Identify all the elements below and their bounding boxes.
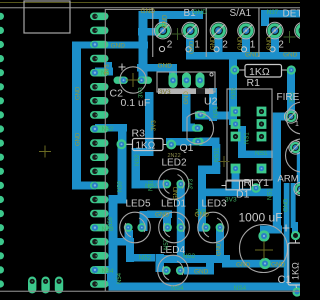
connector J1 pin 5 pad: [90, 69, 109, 77]
resistor R4 lead: [296, 240, 297, 288]
origin cross marker left: [39, 146, 51, 158]
wire to C1 plus pad H: [262, 226, 282, 234]
wire N59 vertical upper: [118, 145, 127, 202]
svg-text:N35: N35: [232, 87, 238, 99]
led LED4 cathode pad: [176, 266, 185, 275]
wire N59 vertical lower: [109, 195, 118, 286]
wire N52 horizontal: [95, 124, 127, 132]
resistor R3 left pad: [117, 139, 127, 149]
relay RLY1 pin pad col1 row4: [231, 164, 241, 174]
connector J1 pin 6 pad: [90, 83, 109, 91]
connector left edge pin 20 pad: [0, 280, 4, 287]
led LED5 outline circle: [120, 212, 151, 243]
connector FIRE1 pin 1 pad: [284, 110, 297, 123]
connector ARM1 outline circle: [286, 139, 319, 172]
wire NS1 from U2 pin3: [209, 88, 217, 121]
svg-text:1KΩ: 1KΩ: [136, 140, 156, 151]
wire U2 pin2 down: [182, 88, 191, 132]
svg-text:NS1: NS1: [255, 150, 268, 157]
svg-text:LED5: LED5: [126, 199, 151, 210]
wire down to LED3 left pad: [198, 166, 206, 232]
svg-text:ARM: ARM: [278, 174, 299, 185]
svg-text:GND: GND: [163, 14, 169, 28]
wire V4 right edge: [297, 152, 301, 186]
svg-text:2: 2: [167, 39, 173, 50]
wire GND left vertical: [72, 42, 81, 190]
relay RLY1 pin pad col2 row2: [257, 119, 267, 129]
connector left edge pin 2 pad: [0, 27, 4, 34]
origin cross marker DET: [284, 31, 296, 43]
transistor Q1 pin 3 pad: [192, 138, 203, 145]
wire N52 link down: [126, 238, 134, 262]
transistor Q1 pin 2 pad: [192, 124, 203, 131]
svg-text:3V3: 3V3: [105, 64, 111, 75]
svg-text:GND: GND: [76, 86, 82, 100]
wire jog left to NS2 column: [132, 148, 154, 156]
connector J1 pin 17 pad: [90, 238, 109, 246]
led LED4 outline circle: [158, 255, 189, 286]
wire FIRE pad left: [277, 113, 291, 121]
connector left edge pin 15 pad: [0, 210, 4, 217]
connector left edge pin 14 pad: [0, 196, 4, 203]
silkscreen connector box line SA1/DET: [258, 8, 259, 57]
connector DET1 pin 2 pad: [267, 22, 284, 39]
wire NS2 horizontal lower: [126, 254, 155, 262]
wire NS4 bottom trace: [109, 283, 301, 291]
relay RLY1 pin pad col2 row4: [257, 164, 267, 174]
op-amp U2 tab notch: [196, 88, 205, 94]
resistor R4 body box: [288, 243, 302, 285]
wire GND vertical V2 right side: [284, 183, 290, 290]
svg-text:1000 uF: 1000 uF: [239, 211, 283, 225]
svg-text:0.1 uF: 0.1 uF: [121, 97, 151, 109]
connector J1 pin 4 pad: [90, 55, 109, 63]
wire LED3 right pad down: [216, 229, 224, 259]
svg-text:GND: GND: [111, 42, 126, 49]
connector J1 pin 18 pad: [90, 252, 109, 260]
wire NS2 vertical: [132, 148, 141, 188]
svg-text:GND: GND: [283, 52, 298, 59]
svg-text:NS4: NS4: [234, 285, 247, 292]
connector J2 pin 3 pad: [55, 277, 63, 294]
wire GND top bar under B1: [140, 11, 203, 19]
wire GND into header via row12: [72, 182, 96, 190]
wire LED4 right H: [184, 267, 214, 275]
wire GND above U2: [137, 64, 177, 72]
svg-text:LED2: LED2: [162, 158, 187, 169]
led LED3 cathode pad: [216, 223, 225, 232]
svg-text:NS11: NS11: [214, 147, 220, 162]
wire R1 right down to FIRE: [287, 70, 295, 118]
board outline top olive line: [0, 2, 300, 3]
wire N35 vertical R1 to relay: [229, 59, 237, 125]
svg-text:GND: GND: [190, 40, 196, 54]
svg-text:Q1: Q1: [180, 142, 194, 154]
capacitor C2 pad -: [138, 77, 153, 84]
led LED1 cathode pad: [177, 223, 186, 232]
resistor R1 left pad: [230, 65, 239, 74]
pin number marker circle: [241, 47, 246, 52]
svg-text:N39: N39: [102, 226, 114, 233]
capacitor C1 origin cross: [255, 241, 273, 259]
op-amp U2 tab bar: [158, 88, 214, 94]
connector J1 pin 14 pad: [90, 196, 109, 204]
svg-text:R3: R3: [132, 128, 146, 140]
svg-text:1KΩ: 1KΩ: [291, 262, 301, 280]
wire jog left above LED3: [198, 166, 220, 175]
diode D1 left lead: [222, 185, 227, 187]
capacitor C1 plus mark: [283, 225, 290, 232]
relay RLY1 pin pad col2 row1: [257, 107, 267, 117]
connector left edge pin 18 pad: [0, 252, 4, 259]
led LED2 cathode pad: [176, 180, 185, 189]
connector left edge pin 3 pad: [0, 41, 4, 48]
svg-text:N59: N59: [118, 180, 124, 192]
svg-text:N37: N37: [267, 9, 279, 16]
svg-text:N57: N57: [164, 238, 170, 250]
wire stub pad275: [271, 33, 279, 54]
led LED2 outline circle: [158, 169, 189, 200]
svg-text:2: 2: [278, 39, 284, 50]
connector DET1 pin 1 pad: [295, 22, 312, 39]
svg-text:NS2: NS2: [135, 154, 141, 166]
silkscreen connector box line B1/SA1: [206, 8, 207, 57]
connector ARM1 pin pad lower: [294, 182, 307, 195]
silkscreen long vertical line of header: [105, 10, 152, 292]
relay RLY1 pin pad col1 row2: [231, 119, 241, 129]
wire into LED4 left pad: [156, 254, 165, 272]
wire GND to C1 bottom pad: [222, 260, 262, 268]
svg-text:N54: N54: [117, 272, 123, 284]
wire N3 up: [104, 62, 112, 74]
svg-text:GND: GND: [195, 212, 210, 219]
svg-text:NS4: NS4: [171, 285, 184, 292]
svg-text:GND: GND: [211, 36, 217, 50]
capacitor C2 pad +: [114, 77, 129, 84]
connector left edge pin 19 pad: [0, 266, 4, 273]
op-amp U2 pin1 marker: [210, 73, 213, 76]
wire stub to B1 pin 2: [159, 14, 167, 33]
capacitor C1 pad -: [259, 258, 270, 269]
led LED4 anode pad: [162, 266, 171, 275]
connector J1 pin 2 pad: [90, 27, 109, 35]
connector S/A1 pin 1 pad: [238, 22, 255, 39]
connector left edge pin 7 pad: [0, 97, 4, 104]
wire N59 jog: [109, 195, 127, 204]
resistor R4 top pad: [291, 231, 300, 240]
svg-text:N52: N52: [102, 126, 114, 133]
connector J1 pin 11 pad: [90, 153, 109, 161]
wire stub pad246: [242, 33, 250, 54]
connector left edge pin 12 pad: [0, 168, 4, 175]
svg-text:RLY1: RLY1: [244, 177, 270, 189]
connector J1 pin 15 pad: [90, 210, 109, 218]
resistor R1 body box: [245, 65, 282, 78]
wire LED5 left pad down: [125, 230, 134, 245]
wire N37 vertical: [261, 10, 269, 26]
wire NS1 H to relay: [195, 112, 235, 120]
wire stub pad218: [215, 33, 223, 54]
wire Q1 emitter right: [200, 138, 220, 147]
resistor R1 leads: [239, 69, 286, 71]
relay RLY1 pin pad col1 row1: [231, 107, 241, 117]
svg-text:S/A1: S/A1: [230, 8, 252, 19]
wire V3 to R4 top: [291, 183, 296, 228]
diode D1 body box: [226, 181, 251, 190]
op-amp U2 pin 3 pad: [196, 73, 205, 89]
wire N54 stub: [95, 266, 113, 274]
connector J1 pin 20 pad: [90, 280, 109, 288]
svg-text:GND: GND: [158, 62, 173, 69]
led LED1 outline circle: [159, 212, 190, 243]
diode D1 cathode pad: [251, 183, 261, 193]
resistor R4 bottom pad: [292, 287, 301, 296]
wire GND jog to B1 pin2: [138, 28, 164, 36]
wire 3V3 vertical below U2: [145, 92, 154, 156]
wire B1 pin1 down: [186, 26, 194, 57]
svg-text:GND: GND: [271, 262, 286, 269]
svg-text:1: 1: [295, 121, 299, 128]
connector left edge pin 6 pad: [0, 83, 4, 90]
wire LED5 left H: [110, 238, 133, 246]
wire to Q1 base: [182, 124, 195, 132]
wire N54 down: [107, 266, 115, 286]
svg-text:NS2: NS2: [139, 255, 152, 262]
svg-text:1: 1: [250, 39, 256, 50]
svg-text:GND: GND: [238, 36, 244, 50]
transistor Q1 outline circle: [187, 113, 214, 144]
connector left edge pin 10 pad: [0, 140, 4, 147]
svg-text:GND: GND: [184, 91, 190, 105]
connector left edge pin 4 pad: [0, 55, 4, 62]
svg-text:3V3: 3V3: [139, 87, 145, 98]
wire D1 right: [202, 189, 273, 197]
svg-text:GND: GND: [141, 8, 156, 15]
pin number marker circle: [270, 47, 275, 52]
connector B1 pin 1 pad: [182, 22, 199, 39]
connector J2 pin 1 pad: [28, 277, 36, 294]
svg-text:FIRE: FIRE: [277, 92, 300, 103]
svg-text:GND: GND: [193, 9, 208, 16]
op-amp U2 pin 1 pad: [169, 73, 178, 89]
svg-text:GND: GND: [155, 212, 170, 219]
diode D1 cathode bars: [240, 181, 243, 190]
wire NS1 big vertical right: [273, 113, 281, 234]
connector FIRE1 outline circle: [287, 102, 319, 134]
connector J1 pin 1 pad: [90, 13, 109, 21]
connector S/A1 pin 2 pad: [210, 22, 227, 39]
wire V3 jog into R4 pad: [292, 222, 298, 234]
pin number marker circle: [159, 46, 164, 51]
origin cross marker B1: [172, 28, 184, 40]
wire LED2 right pad down: [177, 186, 185, 263]
connector left edge pin 13 pad: [0, 182, 4, 189]
board outline bottom gray line: [0, 291, 300, 292]
pin number marker circle: [186, 47, 191, 52]
connector J1 pin 7 pad: [90, 97, 109, 105]
wire Q1 pin3 to R3: [166, 138, 200, 146]
connector J1 pin 10 pad: [90, 139, 109, 147]
pin number marker circle: [214, 47, 219, 52]
led LED1 anode pad: [163, 223, 172, 232]
connector J1 pin 13 pad: [90, 182, 109, 190]
svg-text:3V3: 3V3: [152, 120, 158, 131]
resistor R3 body box: [133, 139, 164, 151]
silkscreen connector box line B1 left: [152, 8, 153, 57]
svg-text:2: 2: [222, 39, 228, 50]
wire NS1 V from relay pin: [238, 126, 246, 158]
wire NS1 H in relay: [239, 151, 273, 159]
led LED5 anode pad: [124, 223, 133, 232]
svg-text:LED1: LED1: [161, 199, 186, 210]
svg-text:NS2: NS2: [183, 253, 196, 260]
wire GND link LED5-LED1: [147, 211, 172, 219]
svg-text:U2: U2: [204, 96, 218, 108]
wire LED4 right up: [206, 255, 214, 271]
svg-text:GND: GND: [245, 52, 260, 59]
board outline top gray line: [0, 7, 300, 8]
capacitor C2 origin cross: [126, 73, 140, 87]
svg-text:NS1: NS1: [245, 132, 251, 144]
op-amp U2 outline box: [157, 72, 215, 92]
connector J1 pin 12 pad: [90, 168, 109, 176]
transistor Q1 pin 1 pad: [195, 111, 206, 118]
connector left edge pin 9 pad: [0, 125, 4, 132]
connector left edge pin 8 pad: [0, 111, 4, 118]
origin cross RLY1: [219, 156, 230, 167]
svg-text:DET: DET: [283, 9, 301, 20]
wire relay row4 to D1 anode: [232, 169, 240, 190]
svg-text:NS2: NS2: [145, 183, 158, 190]
resistor R3 right pad: [166, 140, 176, 150]
svg-text:GND: GND: [194, 269, 209, 276]
wire GND rail under connectors: [186, 52, 300, 60]
resistor R1 right pad: [287, 65, 296, 74]
led LED5 cathode pad: [137, 223, 146, 232]
connector left edge pin 11 pad: [0, 154, 4, 161]
wire NS11 vertical: [212, 144, 220, 167]
wire into C1 plus pad: [260, 226, 268, 239]
svg-text:GND: GND: [236, 262, 251, 269]
capacitor C2 outline circle: [120, 67, 146, 93]
connector J2 pin 2 pad: [41, 277, 49, 294]
connector J1 pin 19 pad: [90, 266, 109, 274]
wire NS2 into LED2 left pad: [132, 180, 168, 188]
svg-text:C1: C1: [278, 274, 292, 286]
connector J1 pin 3 pad: [90, 41, 109, 49]
wire C1 minus right stub: [269, 260, 285, 268]
capacitor C2 plus mark: [119, 64, 126, 71]
wire GND rail bottom leds: [164, 255, 230, 263]
connector J1 pin 9 pad: [90, 125, 109, 133]
led LED3 anode pad: [202, 223, 211, 232]
led LED2 anode pad: [162, 180, 171, 189]
resistor R3 leads: [127, 143, 167, 145]
connector left edge pin 16 pad: [0, 224, 4, 231]
wire GND vertical x138-147 down to C2: [139, 11, 148, 83]
relay RLY1 pin pad col1 row3: [231, 132, 241, 142]
relay RLY1 outline box: [227, 89, 272, 180]
svg-text:3V3: 3V3: [189, 178, 195, 189]
svg-text:N54: N54: [102, 268, 114, 275]
wire N3 stub: [95, 68, 113, 76]
wire GND horizontal from left vertical to x148: [72, 42, 148, 49]
led LED3 outline circle: [198, 212, 229, 243]
capacitor C1 outline circle: [240, 225, 288, 273]
wire down to LED5 right pad: [140, 211, 148, 231]
connector J1 pin 16 pad: [90, 224, 109, 232]
svg-text:3V3: 3V3: [159, 89, 171, 96]
op-amp U2 pin 2 pad: [182, 73, 191, 89]
svg-text:LED3: LED3: [202, 199, 227, 210]
svg-text:3V3: 3V3: [225, 197, 237, 204]
svg-text:GND: GND: [76, 132, 82, 146]
wire DET top bar: [261, 10, 300, 18]
svg-text:GND: GND: [217, 242, 223, 256]
connector left edge pin 1 pad: [0, 13, 4, 20]
relay RLY1 pin pad col2 row3: [257, 132, 267, 142]
connector left edge pin 5 pad: [0, 69, 4, 76]
svg-text:GND: GND: [284, 198, 290, 212]
capacitor C1 pad +: [258, 230, 269, 241]
svg-text:NS1: NS1: [268, 188, 274, 200]
connector left edge pin 17 pad: [0, 238, 4, 245]
wire down to LED1 left pad: [163, 211, 171, 231]
svg-text:R1: R1: [247, 77, 261, 89]
connector ARM1 pin pad upper: [289, 141, 302, 154]
svg-text:D1: D1: [236, 189, 250, 201]
svg-text:GND: GND: [267, 36, 273, 50]
connector J1 pin 8 pad: [90, 111, 109, 119]
wire stub to U2 pin1: [169, 70, 177, 82]
connector B1 pin 2 pad: [155, 22, 172, 39]
wire N52 down to R3: [118, 124, 127, 147]
silkscreen rectangle top-left: [24, 1, 70, 33]
svg-text:NS1: NS1: [214, 106, 220, 118]
